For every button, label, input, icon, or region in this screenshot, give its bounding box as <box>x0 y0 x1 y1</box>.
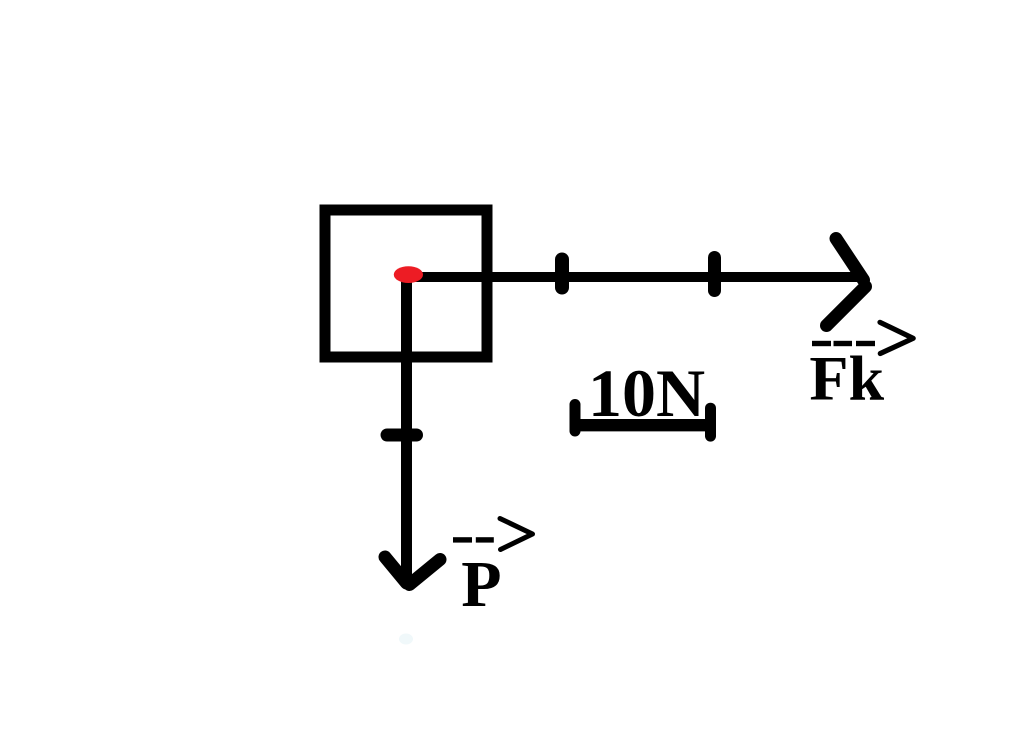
tick 1 on Fk line <box>555 260 569 288</box>
node: center of mass (red dot) <box>394 266 423 283</box>
svg-text:P: P <box>461 548 501 621</box>
arrowhead P <box>385 557 440 585</box>
faint smudge <box>399 634 413 645</box>
tick 2 on Fk line <box>708 258 721 291</box>
vector bar dashes over P <box>453 537 494 542</box>
svg-text:Fk: Fk <box>809 343 884 414</box>
scale bar 10N: right end cap <box>705 408 716 436</box>
arrowhead Fk <box>827 239 866 326</box>
vector chevron over P <box>500 519 533 550</box>
tick on P line <box>387 429 417 442</box>
scale bar 10N: bottom bar <box>575 419 711 431</box>
block (square box) <box>325 210 487 357</box>
svg-text:10N: 10N <box>588 355 705 431</box>
wire: P force line <box>401 277 412 580</box>
vector chevron over Fk <box>880 322 913 353</box>
vector bar dashes over Fk <box>812 341 875 346</box>
wire: Fk force line <box>408 272 860 282</box>
scale bar 10N: left end cap <box>570 405 581 432</box>
